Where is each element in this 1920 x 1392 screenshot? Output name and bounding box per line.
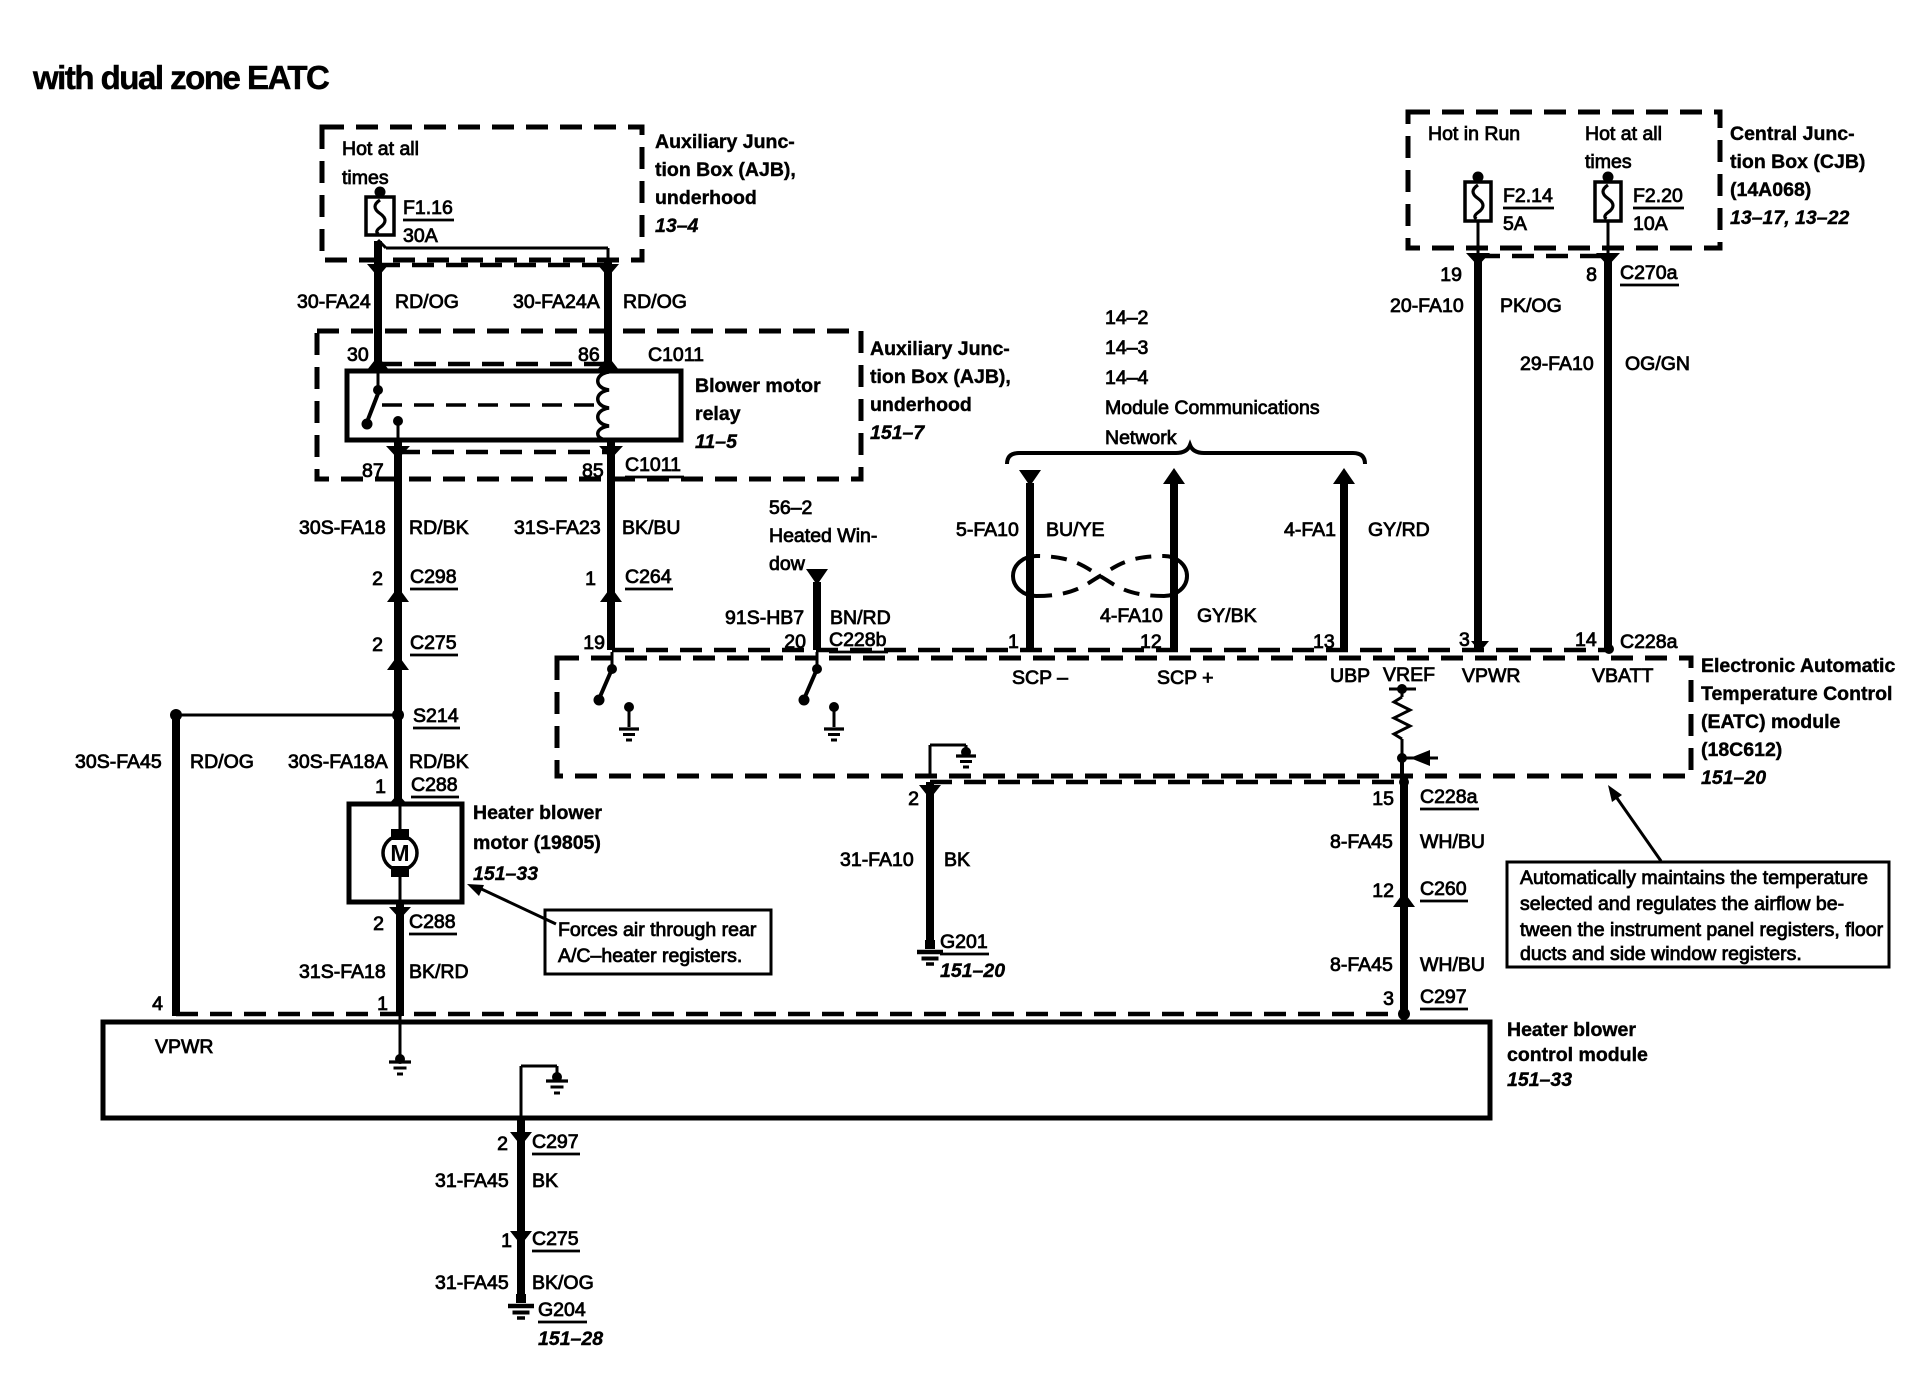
- junction box AJB underhood (relay), dashed outline 151-7: [317, 331, 861, 479]
- connector C275 (pin 1): [501, 1228, 580, 1252]
- svg-text:Hot at all: Hot at all: [342, 138, 419, 160]
- svg-text:15: 15: [1372, 788, 1394, 810]
- svg-text:RD/BK: RD/BK: [409, 751, 469, 773]
- svg-text:151–33: 151–33: [473, 863, 538, 885]
- svg-text:M: M: [390, 840, 409, 866]
- fuse leads inside CJB: [1478, 221, 1608, 254]
- svg-text:RD/OG: RD/OG: [190, 751, 254, 773]
- connector C297 (pin 2): [497, 1131, 580, 1155]
- pin 85 of relay: [582, 446, 623, 482]
- svg-text:tion Box (AJB),: tion Box (AJB),: [655, 159, 796, 181]
- svg-text:Central Junc-: Central Junc-: [1730, 123, 1855, 145]
- splice S214: [392, 705, 460, 728]
- svg-text:RD/BK: RD/BK: [409, 517, 469, 539]
- svg-text:C288: C288: [411, 774, 458, 796]
- pin 86 of blower motor relay: [578, 344, 619, 370]
- wire 30-FA24 RD/OG: [297, 241, 459, 371]
- pin 87 of relay: [362, 446, 410, 482]
- svg-text:14–2: 14–2: [1105, 307, 1148, 329]
- svg-text:1: 1: [377, 993, 388, 1015]
- svg-text:30-FA24A: 30-FA24A: [513, 291, 600, 313]
- svg-text:3: 3: [1459, 629, 1470, 651]
- svg-text:WH/BU: WH/BU: [1420, 831, 1485, 853]
- svg-text:F2.20: F2.20: [1633, 185, 1683, 207]
- HBCM VPWR label: [155, 1036, 214, 1058]
- svg-text:GY/BK: GY/BK: [1197, 605, 1257, 627]
- module communications network label: [1105, 307, 1320, 449]
- wire 30S-FA18 RD/BK: [299, 440, 469, 804]
- svg-text:4-FA10: 4-FA10: [1100, 605, 1163, 627]
- svg-text:151–20: 151–20: [940, 960, 1005, 982]
- wire 31S-FA18 BK/RD: [299, 902, 469, 1016]
- svg-text:control module: control module: [1507, 1044, 1648, 1066]
- wire 31-FA45 BK/OG: [435, 1272, 594, 1294]
- CJB labels hot: [1428, 123, 1662, 173]
- svg-text:RD/OG: RD/OG: [395, 291, 459, 313]
- svg-text:SCP +: SCP +: [1157, 667, 1214, 689]
- svg-text:F1.16: F1.16: [403, 197, 453, 219]
- svg-text:Hot in Run: Hot in Run: [1428, 123, 1520, 145]
- svg-text:11–5: 11–5: [695, 431, 738, 453]
- heater blower control module box: [103, 1022, 1490, 1118]
- svg-text:30-FA24: 30-FA24: [297, 291, 371, 313]
- svg-text:20-FA10: 20-FA10: [1390, 295, 1464, 317]
- note box: automatically maintains: [1507, 862, 1889, 967]
- svg-text:30S-FA45: 30S-FA45: [75, 751, 162, 773]
- svg-text:C297: C297: [532, 1131, 579, 1153]
- EATC pin 3 wire end: [1471, 641, 1489, 652]
- wire 31S-FA23 BK/BU: [514, 440, 681, 650]
- svg-text:times: times: [1585, 151, 1632, 173]
- wire branch from fuse F1.16 to 30-FA24A (thin jog): [378, 240, 608, 262]
- motor M symbol: [383, 804, 417, 902]
- svg-text:G204: G204: [538, 1299, 586, 1321]
- heated window feed label 56-2: [769, 497, 877, 575]
- svg-text:tion Box (AJB),: tion Box (AJB),: [870, 366, 1011, 388]
- EATC net names: [1012, 664, 1653, 689]
- svg-text:10A: 10A: [1633, 213, 1668, 235]
- svg-text:85: 85: [582, 460, 604, 482]
- svg-text:87: 87: [362, 460, 384, 482]
- svg-text:C270a: C270a: [1620, 262, 1678, 284]
- svg-text:30A: 30A: [403, 225, 438, 247]
- svg-text:tween the instrument panel reg: tween the instrument panel registers, fl…: [1520, 919, 1884, 941]
- wire 30S-FA45 RD/OG (branch to pin 4): [75, 709, 398, 1016]
- svg-text:VBATT: VBATT: [1592, 665, 1653, 687]
- svg-text:Network: Network: [1105, 427, 1177, 449]
- svg-text:30S-FA18A: 30S-FA18A: [288, 751, 388, 773]
- pin 19 of CJB: [1440, 253, 1490, 286]
- page title: [32, 59, 329, 96]
- ground inside HBCM (right loop): [521, 1066, 568, 1118]
- svg-text:BK/OG: BK/OG: [532, 1272, 594, 1294]
- connector C288 (pin 2): [373, 907, 457, 935]
- svg-text:Heater blower: Heater blower: [1507, 1019, 1636, 1041]
- svg-text:8-FA45: 8-FA45: [1330, 831, 1393, 853]
- connector line C270a (below CJB): [1478, 254, 1608, 259]
- CJB title text: [1730, 123, 1865, 229]
- svg-text:91S-HB7: 91S-HB7: [725, 607, 804, 629]
- svg-text:151–28: 151–28: [538, 1328, 603, 1350]
- svg-text:A/C–heater registers.: A/C–heater registers.: [558, 945, 742, 967]
- EATC pin 19 label: [583, 632, 605, 654]
- relay switch contact (pin 30 to 87): [362, 371, 404, 440]
- HBCM connector line (above box): [176, 1012, 1404, 1017]
- svg-text:5A: 5A: [1503, 213, 1527, 235]
- pin 30 of blower motor relay: [347, 344, 389, 370]
- wire 8-FA45 WH/BU (lower): [1330, 954, 1485, 976]
- callout box: forces air note: [545, 910, 771, 974]
- wire 30S-FA18A RD/BK: [288, 751, 469, 773]
- svg-text:BK/RD: BK/RD: [409, 961, 469, 983]
- svg-text:4: 4: [152, 993, 163, 1015]
- EATC title text: [1701, 655, 1895, 789]
- svg-text:SCP –: SCP –: [1012, 667, 1068, 689]
- svg-text:relay: relay: [695, 403, 741, 425]
- svg-text:56–2: 56–2: [769, 497, 812, 519]
- fuse F1.16 30A: [366, 187, 454, 248]
- relay connector line C1011 (bottom): [398, 450, 611, 455]
- wire 4-FA10 GY/BK (SCP+): [1100, 468, 1257, 650]
- junction box AJB underhood (top), dashed outline 13-4: [322, 127, 642, 260]
- svg-text:C228a: C228a: [1620, 631, 1678, 653]
- AJB top box label: Hot at all times: [342, 138, 419, 189]
- ground G201: [917, 931, 1005, 982]
- heater blower motor title: [473, 802, 602, 885]
- svg-text:12: 12: [1372, 880, 1394, 902]
- pin 8 / connector C270a: [1586, 253, 1679, 286]
- connector C1011 (pin 85): [625, 454, 684, 477]
- wire 91S-HB7 BN/RD (heated window): [725, 569, 891, 650]
- svg-text:ducts and side window register: ducts and side window registers.: [1520, 943, 1802, 965]
- svg-text:F2.14: F2.14: [1503, 185, 1553, 207]
- svg-text:(EATC) module: (EATC) module: [1701, 711, 1841, 733]
- wire 20-FA10 PK/OG: [1390, 256, 1562, 650]
- svg-text:19: 19: [1440, 264, 1462, 286]
- svg-text:151–7: 151–7: [870, 422, 925, 444]
- svg-text:13–17, 13–22: 13–17, 13–22: [1730, 207, 1849, 229]
- wire 4-FA1 GY/RD (UBP): [1284, 468, 1430, 650]
- EATC pin 20 switch: [799, 652, 823, 706]
- svg-text:with dual zone EATC: with dual zone EATC: [32, 59, 329, 96]
- HBCM title: [1507, 1019, 1648, 1091]
- svg-text:WH/BU: WH/BU: [1420, 954, 1485, 976]
- svg-text:151–20: 151–20: [1701, 767, 1766, 789]
- connector C298 (pin 2): [372, 566, 458, 602]
- svg-text:30S-FA18: 30S-FA18: [299, 517, 386, 539]
- svg-text:31-FA45: 31-FA45: [435, 1272, 509, 1294]
- VREF resistor: [1389, 684, 1438, 776]
- svg-text:PK/OG: PK/OG: [1500, 295, 1562, 317]
- svg-text:Automatically maintains the te: Automatically maintains the temperature: [1520, 867, 1868, 889]
- svg-text:14–3: 14–3: [1105, 337, 1148, 359]
- svg-text:3: 3: [1383, 988, 1394, 1010]
- svg-text:5-FA10: 5-FA10: [956, 519, 1019, 541]
- svg-text:13: 13: [1313, 631, 1335, 653]
- wire 31-FA10 BK: [840, 782, 970, 940]
- svg-text:13–4: 13–4: [655, 215, 699, 237]
- wire 5-FA10 BU/YE (SCP-): [956, 470, 1105, 650]
- svg-text:VPWR: VPWR: [1462, 665, 1521, 687]
- svg-text:Blower motor: Blower motor: [695, 375, 821, 397]
- ground inside HBCM (pin 1): [389, 1016, 411, 1074]
- wire 31-FA45 BK: [435, 1118, 558, 1294]
- connector C297 (pin 3): [1383, 986, 1468, 1020]
- svg-text:selected and regulates the air: selected and regulates the airflow be-: [1520, 893, 1844, 915]
- EATC pin 14 wire end dot: [1604, 644, 1614, 654]
- svg-text:Electronic Automatic: Electronic Automatic: [1701, 655, 1895, 677]
- EATC module dashed box: [557, 658, 1691, 776]
- svg-text:(18C612): (18C612): [1701, 739, 1782, 761]
- wire 8-FA45 WH/BU (upper): [1330, 776, 1485, 1016]
- svg-text:2: 2: [373, 913, 384, 935]
- svg-text:Forces air through rear: Forces air through rear: [558, 919, 757, 941]
- AJB (relay) title text: [870, 338, 1011, 444]
- svg-text:BK: BK: [532, 1170, 558, 1192]
- svg-text:Temperature Control: Temperature Control: [1701, 683, 1892, 705]
- relay connector line C1011 (top): [380, 362, 609, 367]
- svg-text:C275: C275: [410, 632, 457, 654]
- svg-text:C264: C264: [625, 566, 672, 588]
- svg-text:GY/RD: GY/RD: [1368, 519, 1430, 541]
- twisted pair symbol: [1013, 556, 1187, 596]
- svg-text:19: 19: [583, 632, 605, 654]
- EATC pin labels row: [1008, 629, 1678, 653]
- svg-text:151–33: 151–33: [1507, 1069, 1572, 1091]
- EATC pin 19 switch: [594, 652, 618, 706]
- svg-text:Heater blower: Heater blower: [473, 802, 602, 824]
- connector C264 (pin 1): [585, 566, 673, 602]
- ground G204: [508, 1294, 603, 1350]
- svg-text:C275: C275: [532, 1228, 579, 1250]
- svg-text:BK/BU: BK/BU: [622, 517, 681, 539]
- svg-text:1: 1: [375, 776, 386, 798]
- svg-text:BU/YE: BU/YE: [1046, 519, 1105, 541]
- svg-text:C260: C260: [1420, 878, 1467, 900]
- svg-text:2: 2: [497, 1133, 508, 1155]
- svg-text:C228a: C228a: [1420, 786, 1478, 808]
- connector C228b (pin 20): [784, 629, 888, 653]
- svg-text:C288: C288: [409, 911, 456, 933]
- EATC connector line C228 (top): [612, 648, 1608, 653]
- svg-text:motor (19805): motor (19805): [473, 832, 601, 854]
- svg-text:C1011: C1011: [648, 344, 704, 366]
- svg-text:times: times: [342, 167, 389, 189]
- svg-text:8-FA45: 8-FA45: [1330, 954, 1393, 976]
- svg-text:VPWR: VPWR: [155, 1036, 214, 1058]
- relay internal dashed link: [382, 403, 600, 407]
- svg-text:14–4: 14–4: [1105, 367, 1149, 389]
- svg-text:31-FA45: 31-FA45: [435, 1170, 509, 1192]
- connector C275 (pin 2): [372, 632, 458, 670]
- AJB (top) title text: [655, 131, 796, 237]
- svg-text:29-FA10: 29-FA10: [1520, 353, 1594, 375]
- svg-text:4-FA1: 4-FA1: [1284, 519, 1336, 541]
- connector line AJB top (between wire drops): [378, 263, 608, 268]
- svg-text:BK: BK: [944, 849, 970, 871]
- relay coil: [598, 372, 609, 440]
- callout arrow to motor box: [467, 884, 556, 924]
- svg-text:Module Communications: Module Communications: [1105, 397, 1320, 419]
- svg-text:2: 2: [908, 788, 919, 810]
- heater blower motor box: [349, 804, 462, 902]
- svg-text:underhood: underhood: [870, 394, 972, 416]
- svg-text:2: 2: [372, 634, 383, 656]
- connector C1011 (pin 86): [648, 344, 704, 366]
- svg-text:OG/GN: OG/GN: [1625, 353, 1690, 375]
- svg-text:G201: G201: [940, 931, 988, 953]
- relay title: [695, 375, 821, 453]
- fuse F2.14 5A: [1465, 172, 1554, 236]
- svg-text:UBP: UBP: [1330, 665, 1370, 687]
- svg-text:14: 14: [1575, 629, 1597, 651]
- svg-text:(14A068): (14A068): [1730, 179, 1811, 201]
- svg-text:S214: S214: [413, 705, 459, 727]
- svg-text:VREF: VREF: [1383, 664, 1435, 686]
- connector C260 (pin 12): [1372, 878, 1468, 907]
- svg-text:Auxiliary Junc-: Auxiliary Junc-: [655, 131, 795, 153]
- note arrow to EATC box: [1608, 785, 1661, 861]
- svg-text:31S-FA18: 31S-FA18: [299, 961, 386, 983]
- connector C288 (pin 1): [375, 774, 459, 806]
- svg-text:tion Box (CJB): tion Box (CJB): [1730, 151, 1865, 173]
- svg-text:Auxiliary Junc-: Auxiliary Junc-: [870, 338, 1010, 360]
- EATC connector line C228a (bottom): [930, 780, 1404, 785]
- svg-text:dow: dow: [769, 553, 806, 575]
- svg-text:C228b: C228b: [829, 629, 887, 651]
- wire 29-FA10 OG/GN: [1520, 256, 1690, 650]
- central junction box CJB, dashed outline: [1408, 112, 1720, 248]
- svg-text:1: 1: [1008, 631, 1019, 653]
- svg-text:Hot at all: Hot at all: [1585, 123, 1662, 145]
- svg-text:1: 1: [585, 568, 596, 590]
- svg-text:86: 86: [578, 344, 600, 366]
- ground inside EATC (pin 2 loop): [930, 745, 976, 776]
- svg-text:C297: C297: [1420, 986, 1467, 1008]
- svg-text:12: 12: [1140, 631, 1162, 653]
- svg-text:30: 30: [347, 344, 369, 366]
- svg-text:C298: C298: [410, 566, 457, 588]
- ground inside EATC (pin 19): [619, 702, 639, 740]
- blower motor relay box: [347, 371, 681, 440]
- svg-text:1: 1: [501, 1230, 512, 1252]
- ground inside EATC (pin 20): [824, 702, 844, 740]
- svg-text:8: 8: [1586, 264, 1597, 286]
- svg-text:31S-FA23: 31S-FA23: [514, 517, 601, 539]
- fuse F2.20 10A: [1595, 172, 1684, 236]
- svg-text:BN/RD: BN/RD: [830, 607, 891, 629]
- svg-text:2: 2: [372, 568, 383, 590]
- svg-text:31-FA10: 31-FA10: [840, 849, 914, 871]
- wire 30-FA24A RD/OG: [513, 262, 687, 371]
- svg-text:underhood: underhood: [655, 187, 757, 209]
- svg-text:C1011: C1011: [625, 454, 681, 476]
- module communications brace: [1007, 445, 1365, 464]
- svg-text:RD/OG: RD/OG: [623, 291, 687, 313]
- svg-text:Heated Win-: Heated Win-: [769, 525, 877, 547]
